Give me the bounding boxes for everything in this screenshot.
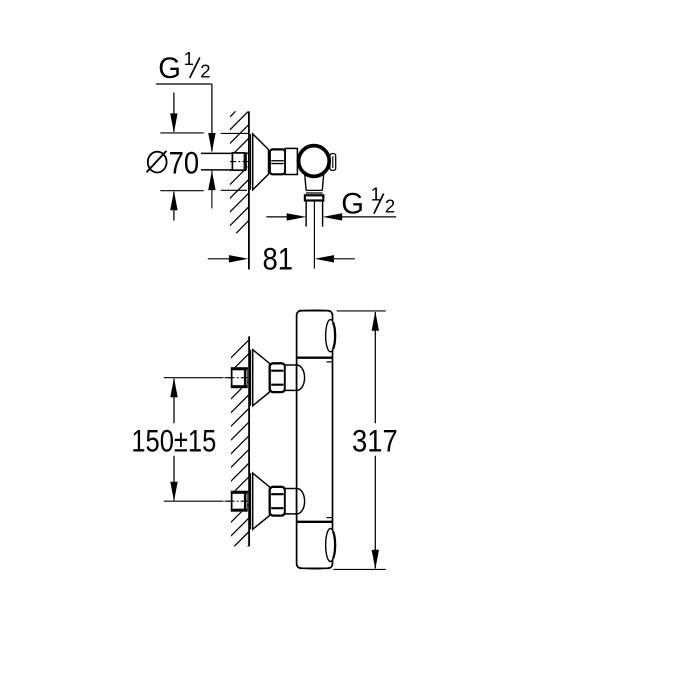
- dimension label G1/2 (hose): [341, 184, 395, 221]
- pipe centreline (top view): [230, 161, 248, 163]
- escutcheon flange (top view): [250, 134, 253, 190]
- dimension 81: [208, 242, 355, 277]
- square backnut U1: [231, 367, 248, 388]
- control knob bottom (front view): [326, 529, 336, 562]
- dimension 317 extension lines: [333, 311, 385, 570]
- wall (front view): [248, 336, 250, 546]
- dimension arrow up G1/2 (top left): [208, 171, 215, 209]
- svg-text:70: 70: [169, 146, 199, 181]
- escutcheon flange U1: [250, 350, 253, 406]
- square backnut U2: [231, 491, 248, 512]
- svg-text:G: G: [158, 53, 181, 85]
- connector sleeve U2: [285, 489, 297, 514]
- dimension G1/2 (hose) arrows: [266, 213, 396, 220]
- escutcheon cone U2: [253, 473, 270, 529]
- side cap (top view): [330, 154, 336, 171]
- svg-text:2: 2: [200, 61, 210, 82]
- connector sleeve U1: [285, 365, 297, 390]
- wall hatching (front view): [230, 340, 249, 564]
- outlet neck (top view): [305, 171, 324, 190]
- escutcheon cone U1: [253, 350, 270, 406]
- svg-text:150±15: 150±15: [131, 424, 216, 459]
- centreline inside nut U1: [228, 377, 247, 379]
- dimension lines D70: [160, 93, 249, 221]
- inlet pipe behind wall (top view): [201, 153, 248, 170]
- square backnut (top view): [232, 153, 246, 170]
- union centreline U2: [164, 500, 249, 502]
- connector sleeve (top view): [285, 148, 297, 174]
- centreline inside nut U2: [228, 500, 247, 502]
- escutcheon cone (top view): [253, 134, 269, 190]
- control knob top (front view): [326, 320, 336, 352]
- svg-text:2: 2: [385, 196, 395, 217]
- svg-text:317: 317: [352, 424, 398, 459]
- junction tick top: [327, 361, 332, 363]
- wall (top view): [248, 111, 250, 269]
- union centreline U1: [164, 377, 249, 379]
- body bottom crown: [300, 568, 329, 569]
- dimension 150±15: [131, 378, 216, 502]
- union hex nut U1: [270, 363, 285, 392]
- body top crown: [300, 310, 329, 311]
- cap junction line bottom: [297, 521, 333, 523]
- inlet boss U2: [297, 489, 305, 514]
- hose coupling nut (top view): [305, 195, 323, 200]
- inlet boss U1: [297, 365, 305, 390]
- dimension 317: [352, 311, 398, 569]
- svg-text:G: G: [341, 189, 364, 221]
- mixer body (front view): [297, 311, 333, 569]
- union hex nut U2: [270, 487, 285, 516]
- shower hose (top view): [305, 201, 307, 227]
- dimension label G1/2 (top left): [156, 48, 216, 153]
- union hex nut (top view): [270, 149, 285, 174]
- wall hatching (top view): [230, 111, 249, 234]
- hose centreline (top view): [313, 202, 315, 269]
- svg-text:1: 1: [184, 48, 194, 69]
- outlet collar rings (top view): [306, 189, 323, 191]
- escutcheon flange U2: [250, 473, 253, 529]
- svg-text:81: 81: [262, 242, 292, 277]
- dimension label D70: [147, 146, 200, 181]
- valve body (top view): [299, 146, 330, 177]
- junction tick bottom: [327, 517, 332, 519]
- cap junction line top: [297, 357, 333, 359]
